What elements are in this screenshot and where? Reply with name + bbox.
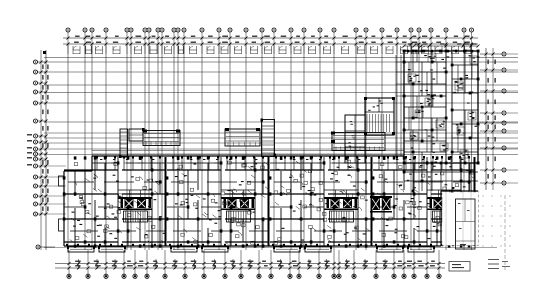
- right grid bubbles and dimension column: [480, 48, 518, 190]
- courtyard clearing: [442, 192, 477, 245]
- annex rooms west of tower: [345, 115, 365, 163]
- apartment unit 2 interior walls and core: [166, 156, 270, 252]
- top grid bubbles row: [66, 28, 474, 44]
- top dimension lines with ticks and text: [63, 36, 478, 46]
- dashed boundary line: [504, 195, 506, 270]
- stair shaft B: [261, 119, 277, 157]
- bottom dimension lines with ticks: [55, 250, 445, 274]
- plaza point grid: [482, 195, 511, 247]
- apartment unit 4 interior walls and core: [372, 156, 476, 252]
- vertical grid lines: [68, 44, 472, 250]
- balcony ramp A: [143, 130, 180, 146]
- tower elevator core: [370, 196, 392, 213]
- long ramp C: [331, 132, 385, 151]
- courtyard with pavilion: [442, 192, 479, 250]
- tower lower rooms: [403, 162, 480, 193]
- stair block D: [364, 97, 395, 135]
- stair shaft A: [119, 128, 145, 158]
- balcony ramp B: [225, 128, 260, 146]
- main building exterior walls: [64, 156, 478, 246]
- window marks under top dimensions: [68, 44, 472, 54]
- west facade bay 1: [59, 176, 65, 186]
- slab top edge guide lines: [92, 151, 404, 155]
- left grid bubbles and dimension column: [27, 50, 55, 250]
- apartment unit 1 interior walls and core: [63, 156, 167, 252]
- dimension label box: [449, 262, 470, 272]
- west facade bay 2: [59, 219, 65, 231]
- notes text bottom right: [488, 259, 510, 269]
- horizontal grid lines: [44, 58, 518, 248]
- right tower walls and rooms: [403, 43, 480, 164]
- apartment unit 3 interior walls and core: [269, 156, 373, 252]
- bottom grid bubbles row: [67, 274, 441, 278]
- corridor west of tower: [396, 55, 404, 156]
